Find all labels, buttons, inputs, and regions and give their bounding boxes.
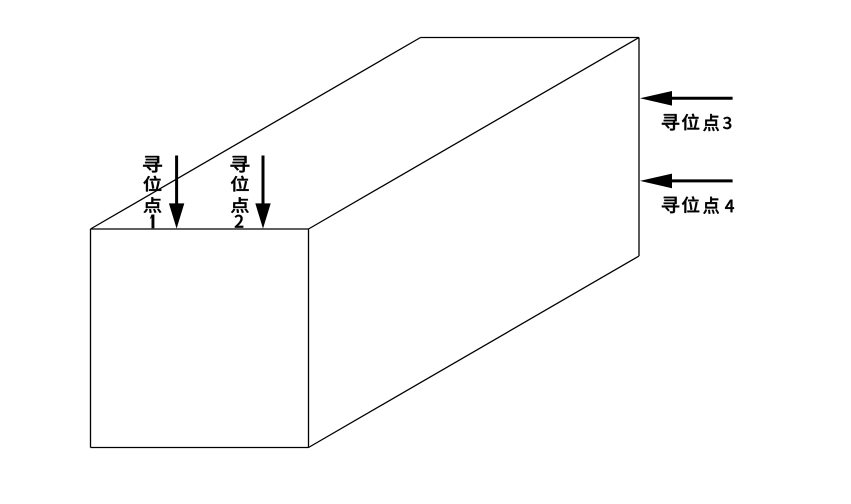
glyph 寻 of label 3 bbox=[662, 114, 679, 130]
wire: cuboid back right vertical edge bbox=[638, 38, 640, 257]
arrow 1: locating point 1 probe direction (downward) bbox=[169, 156, 184, 229]
wire: cuboid front face left edge bbox=[90, 229, 92, 448]
glyph 点 of label 1 bbox=[144, 197, 162, 213]
glyph 寻 of label 4 bbox=[662, 197, 679, 213]
label: vertical text 寻位点2 (locating point 2) bbox=[230, 156, 249, 228]
arrow 4: locating point 4 probe direction (leftward) bbox=[640, 174, 733, 189]
glyph 位 of label 3 bbox=[682, 114, 699, 131]
glyph 位 of label 2 bbox=[231, 176, 249, 192]
glyph 寻 of label 1 bbox=[143, 156, 162, 173]
label: text 寻位点3 (locating point 3) bbox=[662, 114, 731, 132]
glyph 3 of label 3 bbox=[723, 117, 731, 129]
arrow 2: locating point 2 probe direction (downward) bbox=[255, 156, 270, 229]
wire: cuboid top-right receding edge bbox=[309, 38, 640, 230]
label: vertical text 寻位点1 (locating point 1) bbox=[143, 156, 162, 228]
glyph 2 of label 2 bbox=[235, 215, 244, 228]
glyph 点 of label 4 bbox=[703, 197, 719, 214]
arrow 3: locating point 3 probe direction (leftward) bbox=[640, 91, 733, 106]
glyph 位 of label 4 bbox=[682, 196, 699, 213]
wire: cuboid top-left receding edge bbox=[91, 38, 421, 230]
wire: cuboid bottom-right receding edge bbox=[309, 256, 640, 448]
label: text 寻位点4 (locating point 4) bbox=[662, 196, 734, 214]
glyph 寻 of label 2 bbox=[230, 156, 249, 173]
glyph 点 of label 3 bbox=[703, 114, 719, 131]
wire: cuboid front face right edge bbox=[308, 229, 310, 448]
glyph 位 of label 1 bbox=[143, 176, 161, 192]
glyph 4 of label 4 bbox=[725, 200, 734, 213]
wire: cuboid front face top edge bbox=[91, 228, 309, 230]
wire: cuboid front face bottom edge bbox=[91, 447, 309, 449]
glyph 1 of label 1 (custom narrow digit) bbox=[150, 215, 155, 229]
glyph 点 of label 2 bbox=[231, 197, 249, 213]
wire: cuboid back top edge bbox=[421, 37, 640, 39]
